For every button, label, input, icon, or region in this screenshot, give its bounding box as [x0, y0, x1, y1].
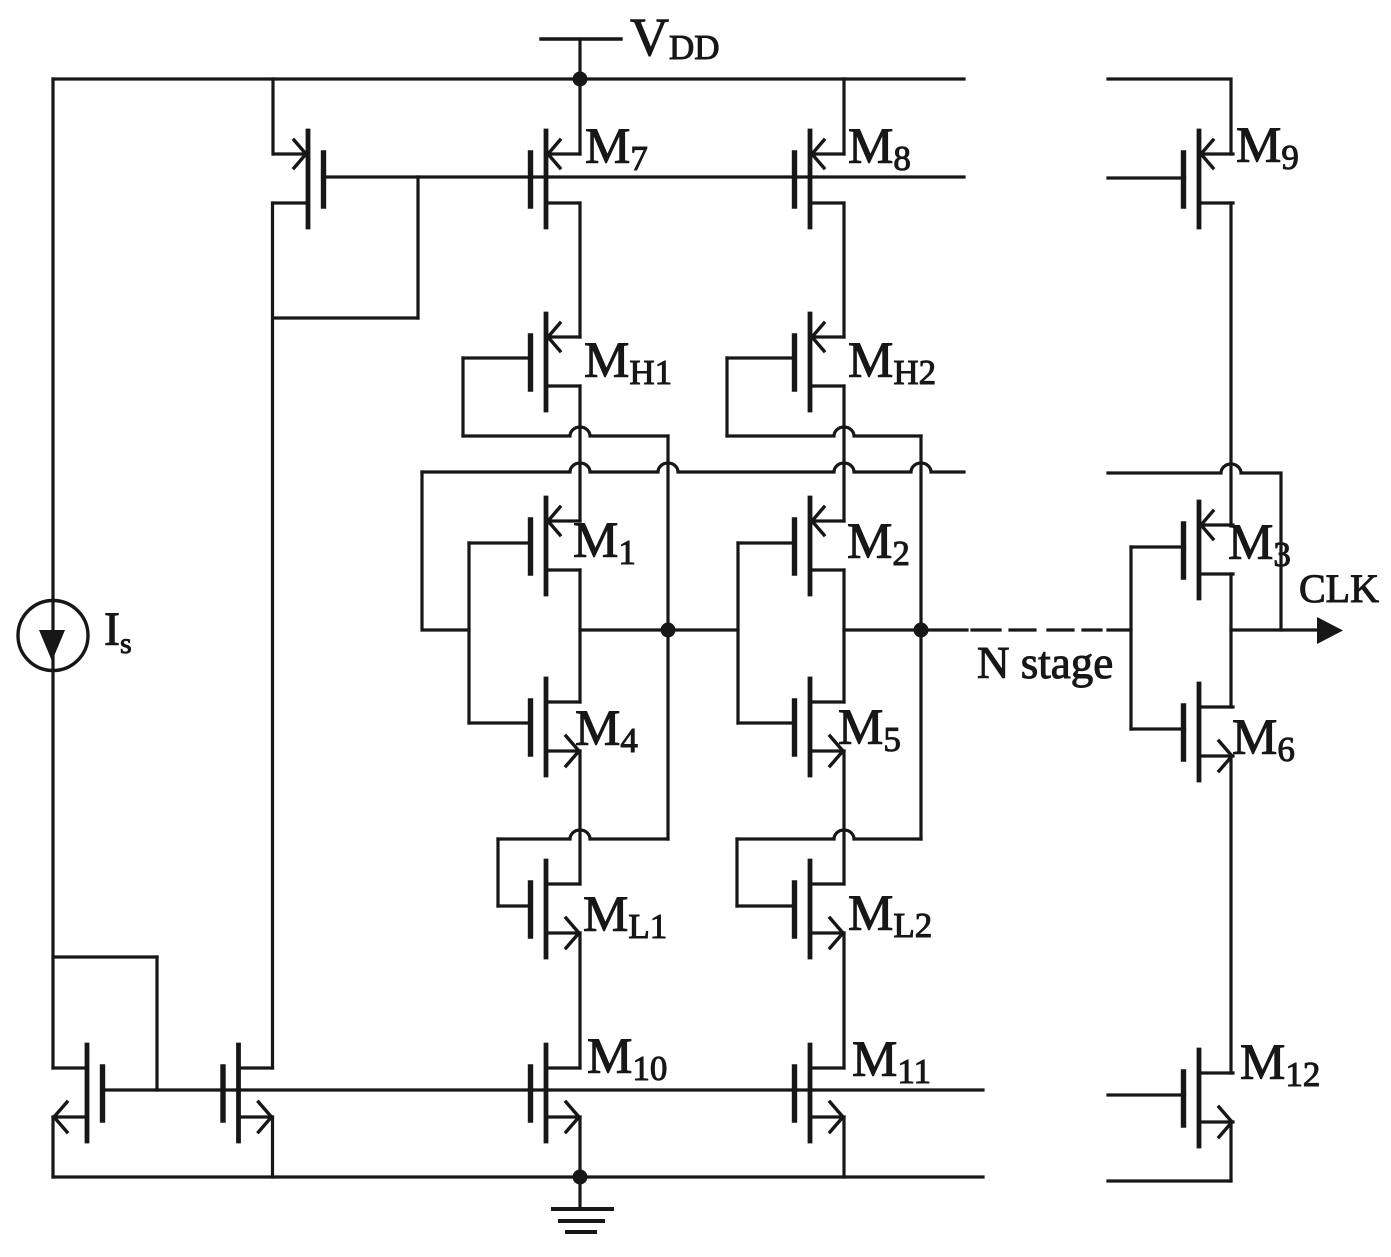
transistor M9 [1184, 131, 1234, 227]
svg-text:M9: M9 [1236, 118, 1299, 177]
svg-text:VDD: VDD [630, 7, 720, 67]
wire: M6 source to M12 drain [1229, 756, 1232, 1073]
wire: M4 gate lead [469, 721, 531, 724]
wire: feedback line segment (right), hops over M9 source wire, down to CLK [1108, 464, 1281, 630]
svg-text:ML1: ML1 [583, 887, 667, 946]
wire: M9 source to M3 drain [1229, 203, 1232, 525]
transistor M2 [795, 498, 845, 594]
svg-text:M1: M1 [573, 513, 636, 572]
wire: M4 source to ML1 drain [578, 751, 581, 884]
wire: bottom-left NMOS source to ground rail [51, 1117, 54, 1177]
wire: ML2 source to M11 drain [842, 933, 845, 1068]
transistor M12 [1184, 1050, 1234, 1146]
svg-text:MH1: MH1 [584, 333, 672, 392]
transistor MH1 [531, 314, 581, 410]
svg-text:CLK: CLK [1299, 566, 1379, 611]
wire: M1 gate lead [469, 541, 531, 544]
wire: dashed N-stage link on output net [972, 628, 1101, 631]
wire: ground rail segment (right) [1108, 1179, 1231, 1182]
wire: second NMOS source to ground rail [271, 1117, 274, 1177]
wire: M2 gate lead [738, 541, 795, 544]
wire: feedback line (hops over four vertical wires) [422, 463, 964, 472]
wire: left mirror branch vertical (mirror PMOS source down to bottom NMOS) [271, 203, 274, 1068]
wire: NMOS gate bias line (bottom mirror to M10, M11 gates) [103, 1088, 984, 1091]
transistor ML2 [795, 861, 845, 957]
svg-text:M5: M5 [838, 700, 901, 759]
svg-text:M4: M4 [575, 701, 638, 760]
wire: stage 2 output vertical (MH2 gate feedback to ML2 gate feedback) [919, 436, 922, 839]
wire: ML1 source to M10 drain [578, 933, 581, 1068]
wire: mirror PMOS gate-to-source tie, horizontal [273, 316, 418, 319]
wire: M11 source to ground rail [842, 1117, 845, 1177]
svg-text:Is: Is [104, 603, 132, 660]
transistor M5 [795, 679, 845, 775]
wire: ML2 gate feedback horizontal (hops over M5 source wire) [737, 830, 921, 839]
svg-text:MH2: MH2 [848, 333, 936, 392]
wire: stage 1 output horizontal to M2/M5 gate [580, 628, 738, 631]
wire: mirror PMOS gate-to-source tie, vertical drop [416, 177, 419, 318]
wire: NMOS mirror gate tie vertical [155, 957, 158, 1090]
wire: M12 gate lead [1108, 1093, 1185, 1096]
wire: MH1 gate feedback vertical [461, 358, 464, 436]
wire: VDD top rail [53, 77, 964, 80]
wire: ML1 gate feedback horizontal (hops over M4 source wire) [498, 830, 668, 839]
svg-text:M10: M10 [587, 1029, 667, 1088]
wire: MH2 gate lead [727, 356, 795, 359]
wire: M5 gate lead [738, 721, 795, 724]
wire: M5 source to ML2 drain [842, 751, 845, 884]
wire: MH1 gate feedback horizontal (hops over MH1 source wire) [463, 427, 668, 436]
svg-text:M2: M2 [847, 514, 910, 573]
svg-text:N stage: N stage [977, 638, 1113, 688]
wire: MH1 gate lead [463, 356, 531, 359]
wire: M2/M5 gate vertical (stage 2 input) [736, 543, 739, 723]
transistor: unlabeled NMOS current-mirror (second, bottom left) [223, 1045, 273, 1141]
wire: PMOS gate bias line (mirror PMOS to M7, M8 gates) [324, 175, 965, 178]
current source Is [18, 601, 88, 671]
ground symbol [553, 1177, 612, 1232]
wire: ground rail [53, 1175, 983, 1178]
wire: M10 source to ground rail [578, 1117, 581, 1177]
wire: ML2 gate lead [737, 904, 795, 907]
svg-text:ML2: ML2 [848, 886, 932, 945]
wire: M3/M6 gate vertical (last stage input) [1129, 547, 1132, 729]
wire: output net into last stage input [1108, 628, 1131, 631]
transistor MH2 [795, 314, 845, 410]
wire: M1 source to output node and M4 drain [578, 570, 581, 702]
wire: M2 source to output node and M5 drain [842, 570, 845, 702]
wire: M1/M4 gate vertical (stage 1 input) [467, 543, 470, 723]
svg-text:M6: M6 [1232, 710, 1295, 769]
wire: NMOS mirror gate tie horizontal [53, 955, 157, 958]
wire: MH2 source to M2 drain [842, 386, 845, 521]
wire: M7 drain to VDD rail [578, 79, 581, 154]
transistor M11 [795, 1045, 845, 1141]
wire: M3 source to CLK node and M6 drain [1229, 574, 1232, 707]
junction: ground rail / ground symbol [573, 1170, 588, 1185]
wire: left branch vertical from VDD rail to bottom-left NMOS drain [51, 79, 54, 1068]
wire: M8 drain to VDD rail [842, 79, 845, 154]
junction: VDD rail / M7 drain [573, 72, 588, 87]
wire: ML1 gate feedback vertical [496, 839, 499, 906]
wire: ML1 gate lead [498, 904, 531, 907]
transistor M8 [795, 131, 845, 227]
wire: M9 gate lead from PMOS bias line [1108, 176, 1185, 179]
transistor M10 [531, 1045, 581, 1141]
wire: M8 source to MH2 drain [842, 203, 845, 337]
transistor ML1 [531, 861, 581, 957]
junction: stage 2 output node [914, 623, 929, 638]
wire: MH2 gate feedback vertical [725, 358, 728, 436]
wire: MH1 source to M1 drain [578, 386, 581, 521]
power VDD symbol [541, 39, 621, 79]
wire: M12 source to ground rail segment [1229, 1122, 1232, 1181]
transistor: unlabeled PMOS current-mirror master (top left) [274, 131, 324, 227]
junction: stage 1 output node [661, 623, 676, 638]
wire: VDD rail segment (right) into M9 drain [1108, 79, 1231, 154]
transistor M3 [1184, 502, 1234, 598]
transistor M6 [1184, 684, 1234, 780]
transistor: unlabeled NMOS current-mirror master (bottom left) [53, 1045, 103, 1141]
transistor M7 [531, 131, 581, 227]
transistor M1 [531, 498, 581, 594]
wire: M3 gate lead [1131, 545, 1185, 548]
wire: MH2 gate feedback horizontal (hops over MH2 source wire) [727, 427, 921, 436]
wire: mirror PMOS drain to VDD rail [271, 79, 274, 154]
wire: stage 1 input drop from feedback line [422, 472, 469, 630]
wire: stage 1 output vertical (MH1 gate feedback to ML1 gate feedback) [666, 436, 669, 839]
transistor M4 [531, 679, 581, 775]
arrow: CLK output arrowhead [1317, 617, 1343, 644]
svg-text:M12: M12 [1240, 1035, 1320, 1094]
wire: M6 gate lead [1131, 727, 1185, 730]
svg-text:M11: M11 [852, 1032, 931, 1091]
svg-text:M8: M8 [848, 119, 911, 178]
wire: M7 source to MH1 drain [578, 203, 581, 337]
wire: ML2 gate feedback vertical [735, 839, 738, 906]
svg-text:M7: M7 [585, 119, 648, 178]
wire: CLK output line [1231, 628, 1333, 631]
wire: stage 2 output horizontal [844, 628, 967, 631]
